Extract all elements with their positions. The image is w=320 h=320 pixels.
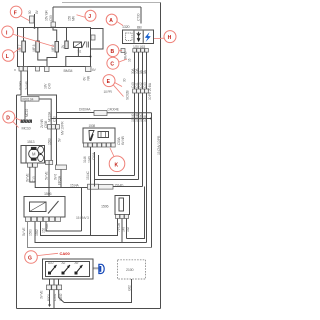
svg-text:M: M [32,152,36,157]
wire 1506 pin3 run [41,222,118,236]
svg-text:MV 10 PR: MV 10 PR [61,121,65,135]
pins of 1508 [84,143,88,147]
svg-text:5V VE: 5V VE [22,227,26,236]
callout circle K [109,156,125,172]
connector 1514D [99,185,114,190]
svg-text:15 CNV 10 PR: 15 CNV 10 PR [157,135,161,155]
connector 5 on BM34 top [51,22,56,27]
wire drop to battery BB [140,7,142,24]
fuse link 1 [48,261,57,275]
stubs below junction box [50,279,59,285]
svg-text:2100: 2100 [126,268,134,272]
wire MF4 top [66,28,68,42]
callout circle A [106,14,117,25]
pin row under BB [133,49,137,53]
fuse MF7 [22,41,26,52]
wire 1508 pin down [90,147,92,236]
wire 1506b pin3 [126,219,128,239]
fuse link 2 [62,261,71,275]
fuse MF8 [36,41,40,52]
wire 1514D to riser [113,186,143,188]
wire BB2 down [138,52,140,179]
fan blades 1513 [38,146,44,153]
wire mid drop b [56,129,58,165]
svg-text:1320: 1320 [122,25,130,29]
svg-text:G: G [28,256,32,262]
ground loop wire bottom [17,308,161,310]
junction box inner [46,262,90,277]
leader H [154,37,164,39]
leader A [117,22,123,26]
dashed box 2100 [118,260,146,279]
svg-text:10 PR: 10 PR [104,90,113,94]
callout circle F [10,6,22,18]
svg-text:K: K [115,162,119,168]
wire elbow 238 [127,187,145,239]
svg-text:16: 16 [128,58,132,62]
wire MF8 top [37,28,39,42]
svg-text:30: 30 [123,78,127,82]
callout circle B [107,45,119,57]
svg-text:7V GR: 7V GR [117,222,121,232]
svg-text:MC10: MC10 [25,109,29,117]
nest inner wire [99,155,135,176]
wire BB4 down [146,52,148,242]
svg-text:1088: 1088 [143,115,147,122]
wire 1506 pin2 run [35,222,147,243]
pins of 1506b [116,215,120,219]
wire M02 down [60,170,62,188]
svg-text:F001 04: F001 04 [23,97,34,101]
pin 3 BM34 [45,67,50,72]
connector row mid [48,125,52,130]
svg-text:3146: 3146 [83,156,87,163]
svg-text:L: L [6,54,9,60]
svg-text:5R AB: 5R AB [124,51,128,60]
ground loop wire left side [16,95,18,309]
relay coil S1 [74,42,82,48]
callout circle G [25,251,38,264]
junction dot [90,56,92,58]
svg-text:C: C [110,62,114,68]
fuse MF9 [55,42,59,53]
label box on stub [30,16,35,23]
pin 1 BM34 b [24,67,28,72]
svg-text:MR: MR [72,15,76,21]
svg-text:A10: A10 [48,261,54,265]
svg-text:A: A [109,18,113,24]
callout circle J [85,10,96,21]
leader B [119,50,122,52]
fuse box BM34 [18,28,91,67]
junction dot [150,118,152,120]
leader K [110,148,114,157]
pin row junction box [47,285,52,290]
leader G [37,253,58,255]
svg-text:G02: G02 [128,285,132,291]
wire F001 to ground [24,101,26,119]
pin 1 of 1513 [28,163,33,167]
svg-text:C40: C40 [48,83,52,89]
svg-text:F: F [14,10,17,16]
pin left of BB [121,49,125,53]
svg-text:A9: A9 [75,261,79,265]
svg-text:152: 152 [126,227,130,232]
connector in sub box [91,35,95,40]
svg-text:SC02B: SC02B [126,90,130,100]
svg-text:CT30: CT30 [137,13,141,21]
power symbol lightning [145,32,151,42]
fuse MF4 [65,41,68,49]
ground splice MC10 [21,120,33,123]
callout circle L [2,50,14,62]
pins of 1506 [26,217,31,222]
wire riser 1514A [81,188,83,232]
svg-text:1514C: 1514C [86,170,90,180]
wire to C004 [57,112,95,114]
wire relay to pin [66,48,91,67]
svg-text:D: D [6,116,10,122]
leader L [14,48,21,53]
leader J [77,15,86,17]
connector C004 [94,111,107,116]
wire stub x34.5 into BM34 [34,14,36,28]
ground loop wire right side [160,3,162,309]
svg-text:3V VE: 3V VE [40,290,44,299]
wire box to plug [93,267,98,269]
wire 1506b pin1 [91,219,118,236]
leader I [13,34,54,46]
pin a [46,161,50,165]
leader F [21,16,30,21]
callout circle D [3,111,15,123]
svg-text:BM34: BM34 [64,69,73,73]
wire drop into relay [48,165,50,197]
leader E1 [115,83,122,87]
svg-text:C43: C43 [143,82,147,88]
connector F001 [21,97,39,102]
wire BB1 down [134,52,136,175]
leader D2 [13,122,19,128]
wire BB3 down [142,52,144,186]
svg-text:6V NR: 6V NR [121,135,125,145]
fuse symbol dashed [126,33,133,41]
wire 1506 pin1 long run [28,222,152,248]
fuse link 3 [75,261,83,275]
pin b [49,161,53,165]
pin 2 BM34 [36,67,40,72]
svg-text:C4D04E: C4D04E [108,107,120,111]
wire drop to BM34 connector [52,7,54,22]
callout circle H [164,31,176,43]
wire MF8 bottom elbow [38,52,47,60]
svg-text:1506: 1506 [101,205,109,209]
connector M02 [56,165,67,170]
wire pin1 down [17,71,22,96]
svg-text:J: J [88,14,91,20]
relay coil 1506 [30,202,47,212]
junction dot [34,27,36,29]
leader C [119,59,127,62]
pin 1 BM34 [19,67,23,72]
svg-text:MF 8: MF 8 [32,44,36,51]
nest outer wire [94,152,96,187]
connector 1514A [88,184,99,189]
svg-text:1503: 1503 [29,229,33,236]
wire C004 right [107,112,152,114]
motor M 1513 [29,149,39,159]
wire pin1b down [28,71,57,125]
wire jb pin3 diagonal [59,290,64,303]
svg-text:A2: A2 [62,261,66,265]
wire fan pin2 down [34,167,36,182]
contact terminal bars [87,42,89,48]
sub box BM34 right [91,29,104,50]
junction box outer [43,259,94,279]
svg-text:MC10A: MC10A [48,111,52,122]
svg-text:50: 50 [28,10,32,14]
wire jb pin2 [53,290,55,309]
wire lower link [51,118,151,120]
svg-text:MC10: MC10 [22,127,31,131]
top border line [62,2,161,4]
svg-text:B: B [111,49,115,55]
ground arrow [48,305,51,308]
battery box BB [123,30,154,44]
pin 4 BM34 relay output [86,67,92,72]
power plug icon [94,264,105,273]
wire 5th down [151,113,153,248]
junction dot [37,27,39,29]
svg-text:C13: C13 [53,116,57,122]
svg-text:16V GR: 16V GR [45,10,49,21]
svg-text:1514A: 1514A [70,183,80,187]
wire mid drop a [50,129,52,161]
svg-text:5V VE: 5V VE [45,171,49,180]
wire MF7 bottom [23,52,25,67]
svg-text:CA00: CA00 [60,251,71,256]
wire F001 right elbow [39,99,51,125]
resistor element [119,198,124,211]
relay contact S1 [82,41,86,48]
svg-text:D0D04A: D0D04A [79,107,91,111]
wire 1506b pin2 [121,219,123,243]
relay contact 1506 [48,201,59,214]
wire MF9 top [53,28,57,42]
svg-text:140: 140 [122,227,126,232]
cell divider [134,31,143,43]
wire jb pin1 [49,290,51,305]
leader E2 [114,85,124,96]
svg-text:9V VE: 9V VE [26,173,30,182]
svg-text:1513: 1513 [27,140,35,144]
relay coil 1508 [98,132,109,138]
leader D1 [15,118,21,121]
svg-text:FF01A: FF01A [57,175,61,185]
wire top feed horizontal [53,6,141,8]
pin 2 of 1513 [33,163,38,167]
svg-text:BB: BB [137,26,142,30]
wire 2100 down [64,279,132,303]
svg-text:1506: 1506 [44,192,52,196]
wire fan pin1 down [30,167,88,187]
wire 1506 pin4 run [46,222,82,232]
wire MF7 top [23,28,25,42]
callout circle E [103,75,115,87]
wire MF9 bottom [47,52,57,67]
diode 1508 [89,131,94,141]
callout circle I [2,26,14,38]
battery symbol [137,32,141,41]
svg-text:C00: C00 [49,15,53,21]
callout circle C [107,57,119,69]
svg-text:H: H [168,35,172,41]
svg-text:1508: 1508 [89,124,96,128]
svg-text:15 CNV 3: 15 CNV 3 [76,216,89,220]
connector row [133,89,137,93]
svg-text:1502: 1502 [35,229,39,236]
